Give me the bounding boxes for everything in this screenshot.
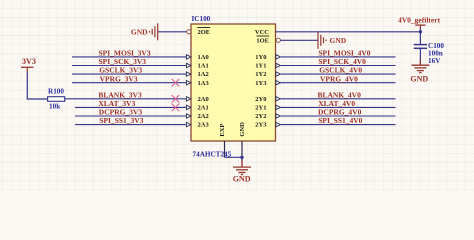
wire GND pin down (241, 157, 243, 167)
capacitor C100 (414, 45, 427, 49)
net label SPI_SCK_4V0 (318, 57, 366, 66)
power port 3V3 (21, 57, 36, 73)
wire GSCLK_4V0 (280, 73, 396, 75)
wire 3V3 to R100 (27, 73, 47, 100)
wire XLAT_4V0 (280, 106, 396, 108)
ground GND (below C100) (410, 65, 429, 83)
label 10k (49, 103, 60, 111)
svg-text:1A0: 1A0 (198, 54, 209, 61)
svg-text:1Y0: 1Y0 (255, 54, 266, 61)
svg-text:2A0: 2A0 (198, 96, 209, 103)
svg-text:VPRG_4V0: VPRG_4V0 (320, 74, 358, 83)
pin VCC (255, 29, 269, 36)
svg-text:SPI_SS1_3V3: SPI_SS1_3V3 (99, 116, 143, 125)
pin 2Y3 (255, 122, 280, 129)
junction node (EXP/GND) (240, 156, 243, 159)
power port 4V0_gefiltert (398, 15, 441, 29)
svg-text:2A1: 2A1 (198, 105, 209, 112)
svg-text:GND: GND (233, 175, 251, 184)
svg-text:SPI_SS1_4V0: SPI_SS1_4V0 (318, 116, 362, 125)
svg-text:1Y1: 1Y1 (255, 63, 266, 70)
wire VPRG_4V0 (280, 82, 396, 84)
pin 2OE (active low, bubble) (187, 28, 211, 37)
wire BLANK_3V3 (65, 98, 187, 100)
svg-text:GND: GND (131, 27, 148, 36)
svg-text:GND: GND (410, 74, 428, 83)
net label SPI_MOSI_4V0 (318, 49, 370, 58)
label 16V (428, 57, 441, 65)
power ground stub (below IC) (241, 160, 243, 167)
net label SPI_SS1_4V0 (318, 116, 362, 125)
pin 1OE (active low, bubble) (256, 36, 280, 45)
pin GND (bottom) (239, 122, 246, 161)
label 100n (428, 50, 443, 58)
net label DCPRG_3V3 (99, 108, 143, 117)
wire SPI_SS1_3V3 (75, 124, 186, 126)
svg-text:2Y1: 2Y1 (255, 105, 266, 112)
pin 2Y1 (255, 105, 280, 112)
label C100 (428, 42, 444, 50)
net label SPI_SS1_3V3 (99, 116, 143, 125)
svg-text:16V: 16V (428, 57, 441, 65)
wire DCPRG_4V0 (280, 115, 396, 117)
svg-text:1A1: 1A1 (198, 63, 209, 70)
net label DCPRG_4V0 (318, 108, 362, 117)
no-ERC marker X (172, 95, 180, 103)
pin 2A3 (186, 122, 209, 129)
net label BLANK_3V3 (98, 90, 142, 99)
pin 1Y2 (255, 71, 280, 78)
svg-text:3V3: 3V3 (22, 57, 36, 66)
svg-text:R100: R100 (48, 88, 64, 96)
power ground stub (below C100) (419, 60, 421, 66)
wire SPI_SCK_3V3 (72, 65, 186, 67)
svg-text:1A2: 1A2 (198, 71, 209, 78)
svg-text:GND: GND (239, 122, 246, 137)
svg-text:EXP: EXP (219, 124, 226, 137)
no-ERC marker X (172, 79, 180, 87)
wire SPI_MOSI_4V0 (280, 56, 396, 58)
svg-text:VCC: VCC (255, 29, 269, 36)
pin 2Y2 (255, 113, 280, 120)
IC IC100 body (74AHCT245 octal bus transceiver) (191, 24, 276, 141)
no-ERC marker X (172, 104, 180, 112)
svg-text:4V0_gefiltert: 4V0_gefiltert (398, 15, 441, 24)
wire BLANK_4V0 (280, 98, 396, 100)
wire SPI_MOSI_3V3 (72, 56, 186, 58)
svg-text:2Y0: 2Y0 (255, 96, 266, 103)
pin 2A2 (186, 113, 208, 120)
value 74AHCT245 (193, 150, 232, 158)
svg-text:2OE: 2OE (198, 29, 211, 36)
resistor R100 (48, 97, 65, 102)
net label BLANK_4V0 (318, 90, 362, 99)
wire 4V0 vertical to C100 (419, 29, 421, 45)
junction node (VCC / 4V0 / C100) (419, 30, 422, 33)
net label GSCLK_3V3 (99, 66, 142, 75)
wire VCC to 4V0 rail (276, 31, 421, 33)
svg-text:10k: 10k (49, 103, 60, 111)
wire VPRG_3V3 (72, 82, 186, 84)
label R100 (48, 88, 64, 96)
wire GSCLK_3V3 (72, 73, 186, 75)
svg-text:1OE: 1OE (256, 38, 269, 45)
pin 1A2 (186, 71, 208, 78)
wire XLAT_3V3 (75, 106, 186, 108)
svg-text:2Y2: 2Y2 (255, 113, 266, 120)
pin 1Y1 (255, 63, 280, 70)
wire EXP to GND net (225, 156, 243, 158)
ground GND (at 1OE, rotated right) (318, 32, 347, 49)
net label XLAT_3V3 (98, 99, 135, 108)
wire SPI_SCK_4V0 (280, 65, 396, 67)
ground GND (below IC) (233, 167, 251, 183)
net label VPRG_4V0 (320, 74, 358, 83)
svg-text:1Y3: 1Y3 (255, 80, 267, 87)
net label GSCLK_4V0 (319, 66, 362, 75)
svg-text:1A3: 1A3 (198, 80, 210, 87)
svg-text:VPRG_3V3: VPRG_3V3 (100, 74, 138, 83)
pin 2Y0 (255, 96, 280, 103)
svg-text:2Y3: 2Y3 (255, 122, 267, 129)
pin 2A0 (186, 96, 208, 103)
pin 1Y0 (255, 54, 280, 61)
pin 2A1 (186, 105, 208, 112)
pin 1A0 (186, 54, 208, 61)
ground GND (at 2OE, rotated left) (131, 23, 158, 40)
designator IC100 (192, 15, 211, 23)
svg-text:1Y2: 1Y2 (255, 71, 266, 78)
svg-text:GND: GND (330, 36, 347, 45)
net label VPRG_3V3 (100, 74, 138, 83)
wire 2OE to GND (158, 31, 187, 33)
svg-text:2A2: 2A2 (198, 113, 209, 120)
wire SPI_SS1_4V0 (280, 124, 396, 126)
svg-text:IC100: IC100 (192, 15, 211, 23)
wire 1OE to GND (280, 39, 318, 41)
svg-text:2A3: 2A3 (198, 122, 210, 129)
pin 1A1 (186, 63, 208, 70)
wire C100 to GND (419, 48, 421, 65)
pin 1Y3 (255, 80, 280, 87)
pin EXP (bottom) (219, 124, 226, 158)
net label XLAT_4V0 (318, 99, 355, 108)
wire DCPRG_3V3 (75, 115, 186, 117)
net label SPI_MOSI_3V3 (99, 49, 151, 58)
net label SPI_SCK_3V3 (99, 57, 147, 66)
pin 1A3 (186, 80, 209, 87)
